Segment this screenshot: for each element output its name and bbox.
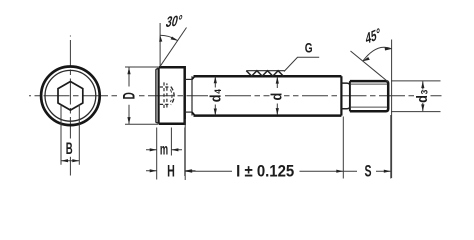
dimension S line with arrows xyxy=(343,170,391,172)
svg-text:I ± 0.125: I ± 0.125 xyxy=(236,163,294,181)
shoulder left chamfer top xyxy=(192,76,195,79)
thread start line xyxy=(349,81,351,111)
head bottom chamfer xyxy=(156,122,161,123)
end view vertical centerline xyxy=(69,36,71,139)
dimension m line with outside arrows xyxy=(146,149,182,151)
under-head neck lower line xyxy=(185,111,192,113)
shoulder end face xyxy=(340,76,342,115)
head outer circle xyxy=(41,67,100,126)
svg-text:3: 3 xyxy=(419,90,430,95)
dimension I line xyxy=(185,170,343,172)
head chamfer circle xyxy=(45,70,96,121)
m extension line right (socket depth) xyxy=(170,128,172,156)
dimension d line with arrows xyxy=(276,77,278,115)
30-degree chamfer slant line xyxy=(160,28,187,67)
shoulder outline bottom xyxy=(194,114,342,117)
H extension line right xyxy=(184,128,186,177)
dimension d3 extension line bottom xyxy=(391,111,441,113)
dimension d4 line with arrows xyxy=(214,77,216,116)
dimension B extension lines xyxy=(61,105,79,165)
svg-text:4: 4 xyxy=(212,89,223,94)
under-head neck upper line xyxy=(185,78,192,80)
shoulder outline top xyxy=(194,75,342,78)
label d4 (rotated) xyxy=(208,89,224,102)
S extension line left xyxy=(342,117,344,179)
svg-text:30°: 30° xyxy=(164,12,184,31)
S extension line right xyxy=(390,115,392,179)
thread minor diameter bottom xyxy=(351,106,387,108)
socket bottom hidden arc xyxy=(171,87,174,105)
shoulder left chamfer bottom xyxy=(192,112,195,115)
svg-text:d: d xyxy=(208,94,224,102)
thread relief symbol top line xyxy=(246,70,285,72)
dimension B line with arrows xyxy=(61,160,79,162)
label d3 (rotated) xyxy=(414,90,430,103)
dimension d3 line with arrows xyxy=(422,81,424,111)
svg-text:H: H xyxy=(167,162,175,181)
socket bottom hidden arc inner xyxy=(170,90,172,103)
main axis centerline xyxy=(136,95,442,97)
dimension D line with arrows xyxy=(128,67,130,124)
m extension line left (head face) xyxy=(156,128,158,180)
svg-text:B: B xyxy=(66,140,73,158)
svg-text:G: G xyxy=(305,40,313,56)
svg-text:D: D xyxy=(119,92,139,99)
G leader line xyxy=(284,57,319,71)
socket hidden vertical line 2 xyxy=(166,83,168,109)
socket hidden line lower xyxy=(160,103,171,105)
hex socket (end view) xyxy=(58,82,83,111)
socket hidden vertical line 1 xyxy=(163,82,165,109)
head top chamfer xyxy=(156,67,161,69)
white gap for d3 label xyxy=(415,89,431,105)
dimension D extension line top xyxy=(125,66,158,68)
head left face (thin outer line) xyxy=(155,69,157,122)
end view horizontal centerline xyxy=(29,95,118,97)
45-degree arc xyxy=(363,47,392,61)
svg-text:S: S xyxy=(364,161,371,180)
under-head neck vertical line xyxy=(191,76,193,115)
svg-text:45°: 45° xyxy=(365,24,381,47)
white gap for d4 label xyxy=(208,89,224,105)
svg-text:d: d xyxy=(269,93,285,101)
white gap for d label xyxy=(270,90,285,104)
socket hidden line upper xyxy=(160,86,171,88)
dimension D extension line bottom xyxy=(125,123,158,125)
thread minor diameter top xyxy=(351,83,387,85)
thread relief neck top xyxy=(341,83,350,86)
svg-text:m: m xyxy=(160,140,168,158)
head outline (top, right, bottom) xyxy=(159,67,185,124)
head chamfer edge line (thick) xyxy=(158,68,160,124)
dimension d3 extension line top xyxy=(391,80,441,82)
I extension line left xyxy=(184,119,186,180)
thread relief symbol zigzag xyxy=(246,71,283,76)
30-degree arc xyxy=(160,35,177,40)
45-degree chamfer slant line xyxy=(351,51,389,82)
dimension H line with outside arrows xyxy=(146,170,196,172)
svg-text:d: d xyxy=(414,95,430,103)
thread relief neck bottom xyxy=(341,106,350,109)
30-degree reference vertical line xyxy=(159,23,161,67)
thread outline xyxy=(350,81,388,111)
45-degree reference vertical line xyxy=(391,40,393,179)
